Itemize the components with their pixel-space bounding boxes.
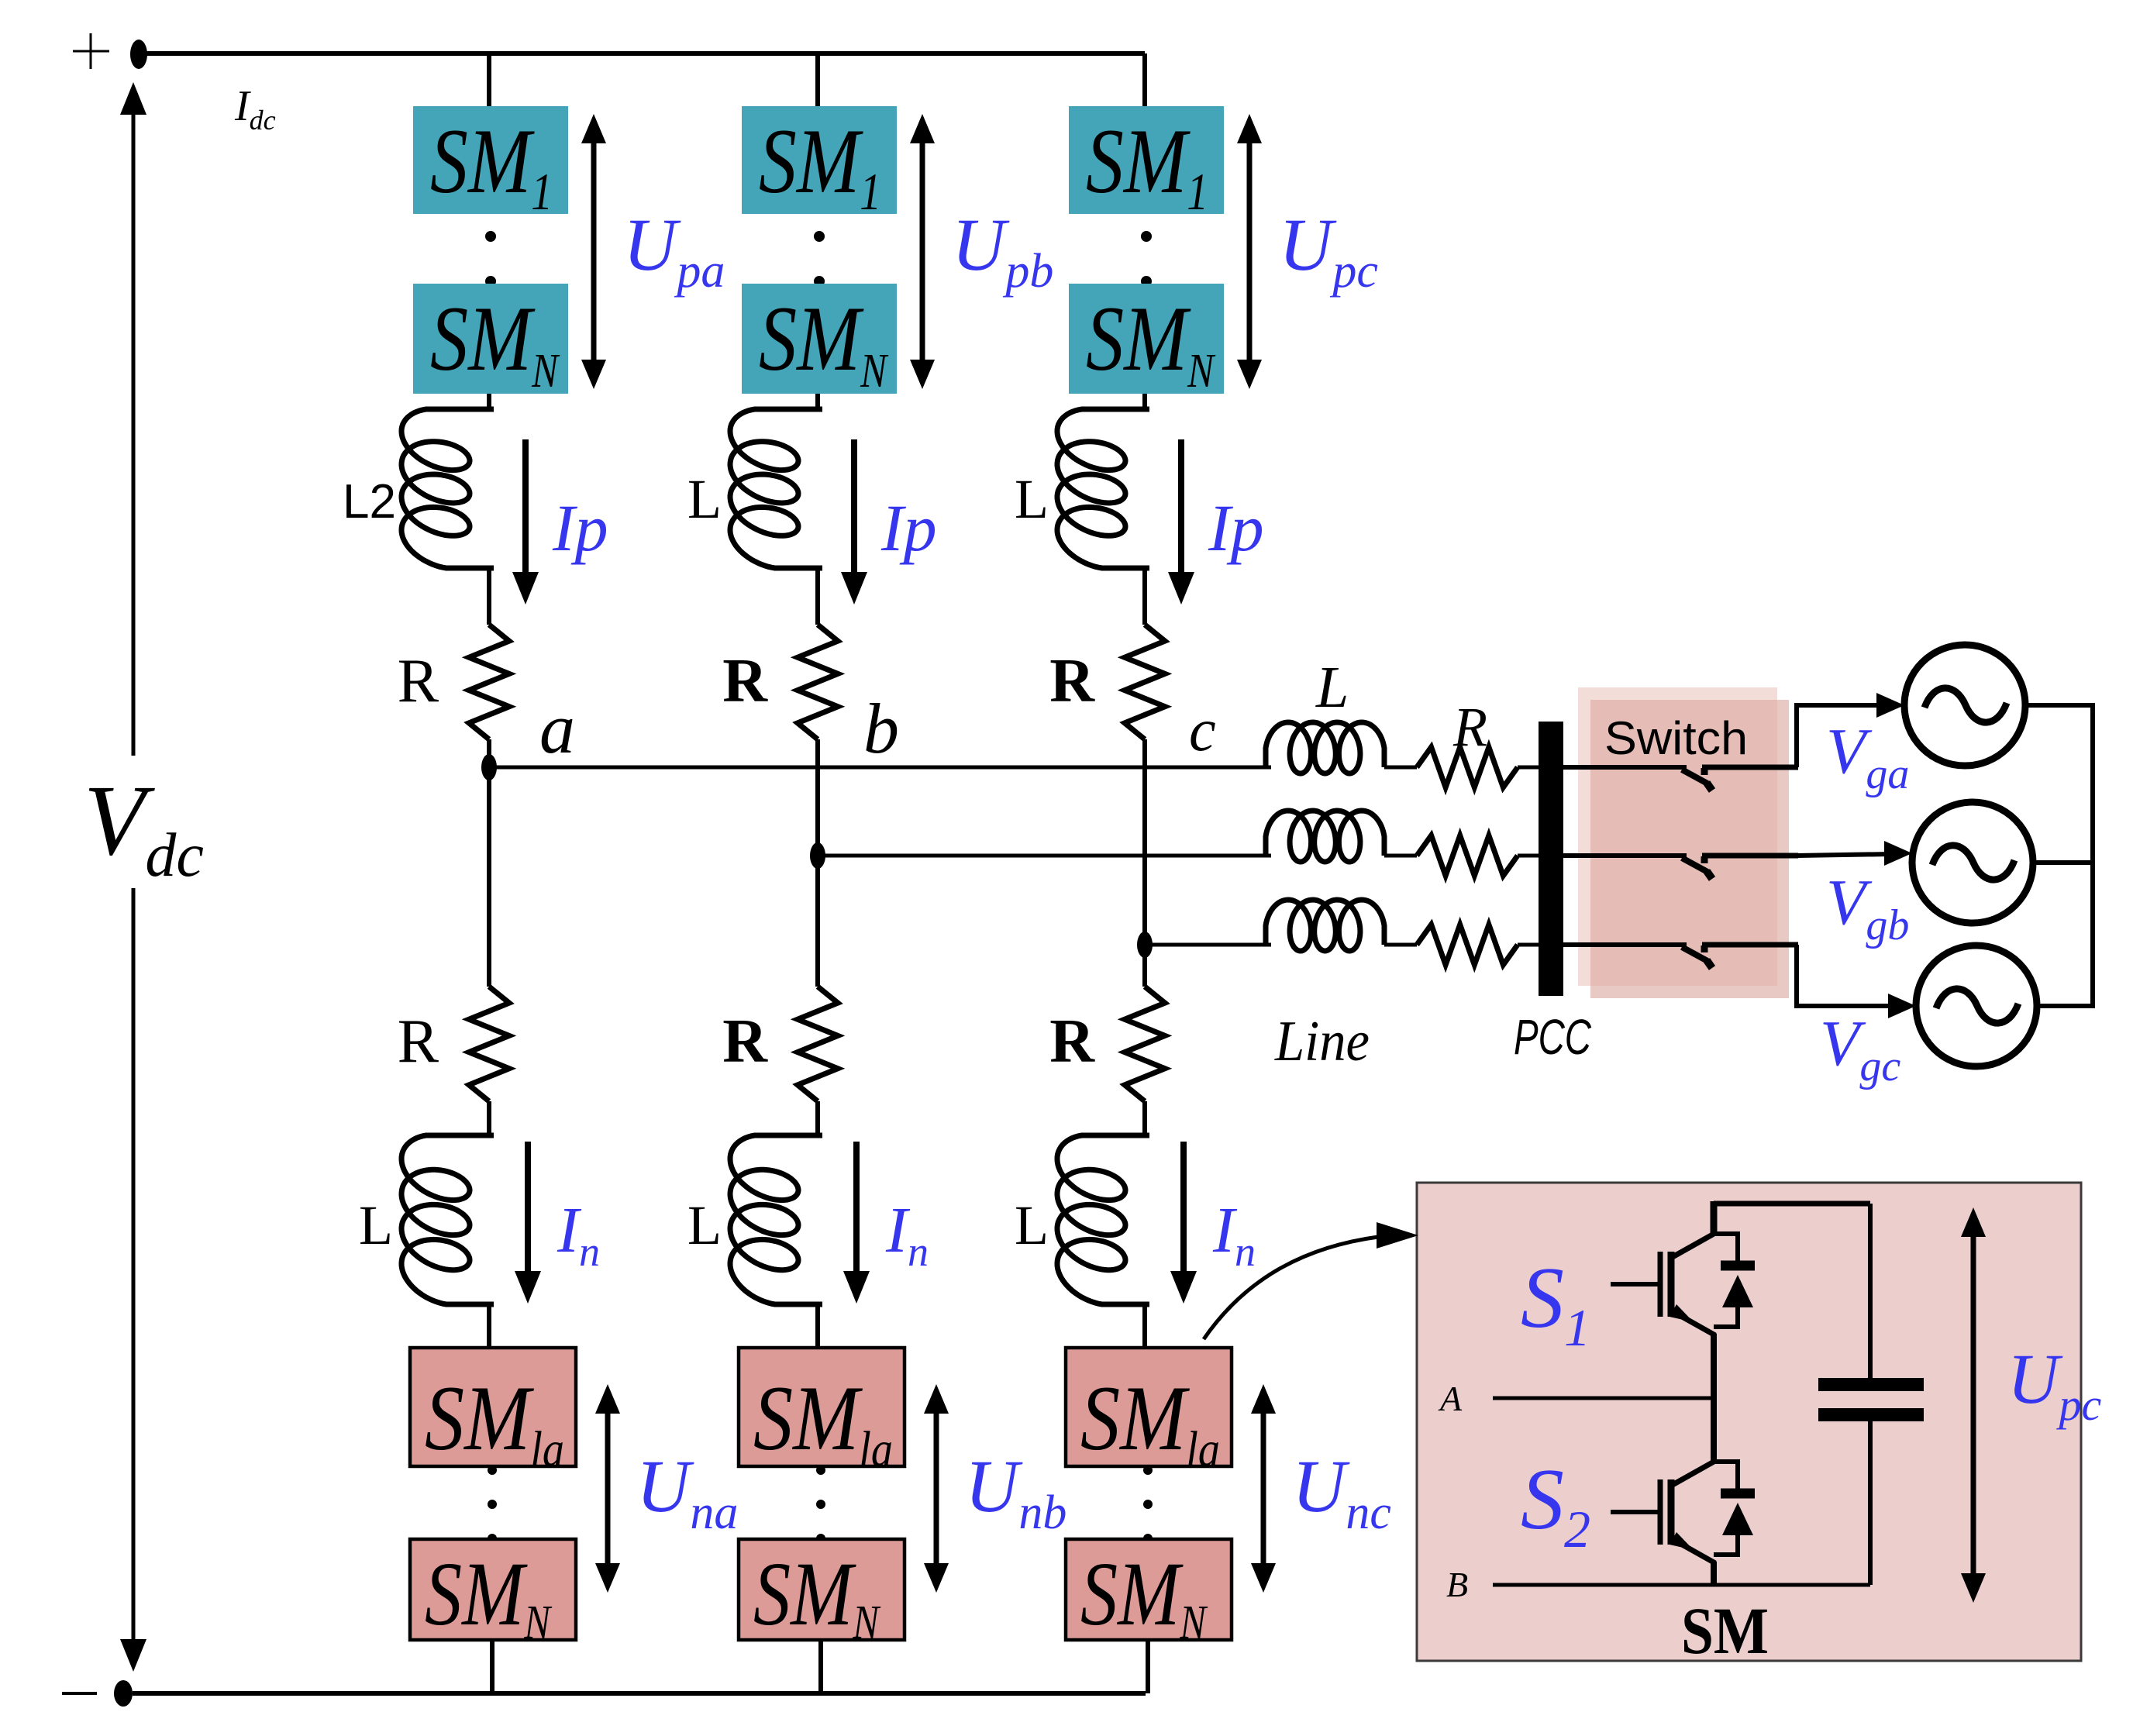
label Upc <box>2007 1339 2101 1430</box>
wire: phase b upper leg from DC bus <box>815 53 820 107</box>
svg-text:R: R <box>398 647 439 715</box>
submodule SMN box (upper arm, phase c) <box>1069 284 1224 398</box>
label S2 <box>1521 1452 1590 1559</box>
switch highlight box (dark overlay) <box>1590 700 1789 998</box>
svg-text:L: L <box>359 1194 393 1256</box>
AC source Vgb <box>1912 802 2033 923</box>
svg-text:R: R <box>398 1007 439 1076</box>
label Ip phase a <box>552 491 608 565</box>
transistor S1 (IGBT) <box>1611 1233 1755 1335</box>
line resistor R phase a <box>1417 747 1518 787</box>
wire: top DC bus <box>143 51 1145 56</box>
wire: phase c AC line to grid inductor <box>1145 943 1271 947</box>
wire: line inductor to resistor phase b <box>1384 854 1417 858</box>
resistor R (upper arm, phase a) <box>469 625 509 739</box>
wire: node c down to lower resistor <box>1142 945 1147 987</box>
svg-text:c: c <box>1189 696 1216 763</box>
current arrow Ip phase a <box>512 439 539 604</box>
wire: S1 emitter to A node <box>1711 1334 1717 1401</box>
svg-text:L: L <box>1015 1194 1049 1256</box>
AC source Vgc <box>1916 945 2037 1066</box>
svg-text:L: L <box>1015 468 1049 530</box>
svg-text:PCC: PCC <box>1514 1009 1592 1065</box>
label Ip phase c <box>1208 491 1264 565</box>
svg-text:Ip: Ip <box>552 491 608 565</box>
label: minus sign <box>62 1692 97 1695</box>
capacitor branch upper wire <box>1868 1204 1873 1378</box>
wire: resistor to PCC phase a <box>1518 766 1542 770</box>
inductor L (lower arm, phase c) <box>1057 1135 1149 1304</box>
wire: resistor to PCC phase c <box>1518 943 1542 947</box>
wire: SM stack to bottom bus phase b <box>818 1640 823 1693</box>
current arrow In phase c <box>1170 1142 1197 1304</box>
label Vgc <box>1820 1007 1900 1090</box>
label Unb <box>965 1445 1066 1539</box>
svg-text:Line: Line <box>1274 1010 1370 1073</box>
wire: node a down to lower resistor <box>487 767 491 987</box>
svg-text:R: R <box>1049 647 1095 715</box>
wire: resistor to node a <box>487 739 491 767</box>
inductor L (upper arm, phase b) <box>730 409 822 568</box>
inductor L (lower arm, phase b) <box>730 1135 822 1304</box>
arm voltage arrow Upb <box>910 114 935 389</box>
switch highlight box (light) <box>1578 687 1777 986</box>
current arrow In phase b <box>843 1142 870 1304</box>
dots between submodules upper arm phase c <box>1141 231 1152 287</box>
label Upa <box>623 203 725 298</box>
capacitor plates <box>1818 1378 1924 1421</box>
wire: phase c upper leg from DC bus <box>1142 53 1147 107</box>
svg-text:Ip: Ip <box>1208 491 1264 565</box>
submodule SMN box (upper arm, phase a) <box>413 284 568 398</box>
label R upper phase c <box>1049 647 1095 715</box>
label b <box>863 689 899 768</box>
inductor L (lower arm, phase a) <box>401 1135 494 1304</box>
wire: resistor to node c <box>1142 739 1147 945</box>
submodule SM1 box (upper arm, phase a) <box>413 106 568 221</box>
svg-text:L: L <box>1315 655 1349 720</box>
label Vgb <box>1826 866 1909 949</box>
Upc measurement arrow <box>1961 1207 1986 1603</box>
line inductor L phase b <box>1266 811 1384 862</box>
wire: SMN to arm inductor phase c <box>1142 394 1147 411</box>
resistor R (lower arm, phase a) <box>469 987 509 1101</box>
terminal B line <box>1493 1583 1870 1587</box>
label L lower phase b <box>687 1194 722 1256</box>
submodule SM1 box (upper arm, phase b) <box>742 106 897 221</box>
label L lower phase a <box>359 1194 393 1256</box>
label Upb <box>952 203 1053 298</box>
line inductor L phase a <box>1266 722 1384 773</box>
wire: SM top rail <box>1714 1201 1870 1234</box>
wire: SMN to arm inductor phase a <box>487 394 491 411</box>
svg-text:R: R <box>722 1007 768 1076</box>
svg-text:R: R <box>1049 1007 1095 1076</box>
wire: line inductor to resistor phase c <box>1384 943 1417 947</box>
wire: SM stack to bottom bus phase a <box>490 1640 494 1693</box>
line inductor L phase c <box>1266 900 1384 951</box>
wire: phase a upper leg from DC bus <box>487 53 491 107</box>
svg-text:L2: L2 <box>343 475 396 529</box>
label A <box>1438 1379 1463 1418</box>
svg-text:B: B <box>1446 1565 1468 1604</box>
wire: A node to S2 collector <box>1711 1398 1717 1462</box>
label R lower phase c <box>1049 1007 1095 1076</box>
label Idc <box>234 82 276 136</box>
label L (upper arm, phase b) <box>687 468 722 530</box>
dots between submodules upper arm phase a <box>485 231 496 287</box>
wire: bottom DC bus <box>133 1691 1146 1696</box>
wire: coil to resistor upper phase b <box>815 568 820 625</box>
Vdc measurement arrow (double headed) <box>120 82 146 1672</box>
resistor R (lower arm, phase b) <box>798 987 838 1101</box>
label In phase b <box>885 1194 929 1275</box>
svg-text:L: L <box>687 468 722 530</box>
PCC busbar <box>1539 722 1563 996</box>
label Line <box>1274 1010 1370 1073</box>
wire: switch c to source Vgc <box>1797 945 1916 1018</box>
wire: grid right bus <box>2025 705 2093 1006</box>
svg-text:Switch: Switch <box>1604 712 1748 764</box>
wire: phase b AC line to grid inductor <box>818 854 1271 858</box>
node b junction dot <box>810 842 825 869</box>
submodule SMN box (upper arm, phase b) <box>742 284 897 398</box>
submodule SM1 box (upper arm, phase c) <box>1069 106 1224 221</box>
label a <box>539 689 575 768</box>
submodule SM1a box (lower arm, phase a) <box>410 1348 576 1478</box>
svg-text:R: R <box>722 647 768 715</box>
wire: SM stack to bottom bus phase c <box>1146 1640 1150 1693</box>
resistor R (upper arm, phase b) <box>798 625 838 739</box>
wire: switch b to source Vgb <box>1797 841 1912 866</box>
resistor R (lower arm, phase c) <box>1125 987 1165 1101</box>
label Unc <box>1292 1445 1391 1539</box>
svg-text:b: b <box>863 689 899 768</box>
wire: SMN to arm inductor phase b <box>815 394 820 411</box>
wire: inductor to SM stack lower phase c <box>1142 1304 1147 1348</box>
switch phase b <box>1563 856 1798 879</box>
wire: lower resistor to inductor phase b <box>815 1101 820 1135</box>
svg-text:R: R <box>1452 696 1487 758</box>
wire: coil to resistor upper phase c <box>1142 568 1147 625</box>
label Una <box>636 1445 738 1539</box>
label R upper phase a <box>398 647 439 715</box>
label B <box>1446 1565 1468 1604</box>
switch phase c <box>1563 945 1798 968</box>
label: plus sign <box>73 33 109 69</box>
label SM (detail box) <box>1681 1593 1769 1668</box>
svg-text:SM: SM <box>1681 1593 1769 1668</box>
arm voltage arrow Upc <box>1237 114 1262 389</box>
switch phase a <box>1563 767 1798 790</box>
label L (upper arm, phase c) <box>1015 468 1049 530</box>
label L lower phase c <box>1015 1194 1049 1256</box>
label Upc <box>1279 203 1378 298</box>
label Switch <box>1604 712 1748 764</box>
label Vga <box>1826 715 1909 798</box>
wire: line inductor to resistor phase a <box>1384 766 1417 770</box>
svg-text:A: A <box>1438 1379 1463 1418</box>
line resistor R phase b <box>1417 835 1518 876</box>
label Ip phase b <box>880 491 937 565</box>
wire: resistor to PCC phase b <box>1518 854 1542 858</box>
dots between submodules lower arm phase c <box>1143 1466 1153 1543</box>
label R upper phase b <box>722 647 768 715</box>
label In phase a <box>557 1194 600 1275</box>
node a junction dot <box>481 754 497 780</box>
label L2 <box>343 475 396 529</box>
label PCC <box>1514 1009 1592 1065</box>
svg-text:a: a <box>539 689 575 768</box>
wire: switch a to source Vga <box>1797 693 1904 767</box>
inductor L (upper arm, phase c) <box>1057 409 1149 568</box>
wire: lower resistor to inductor phase c <box>1142 1101 1147 1135</box>
label R line resistor <box>1452 696 1487 758</box>
node c junction dot <box>1137 932 1153 958</box>
arm voltage arrow Una <box>595 1384 620 1593</box>
terminal A line <box>1493 1397 1714 1400</box>
submodule SM1a box (lower arm, phase c) <box>1066 1348 1232 1478</box>
submodule SMN box (lower arm, phase a) <box>410 1539 576 1649</box>
line resistor R phase c <box>1417 925 1518 965</box>
svg-text:L: L <box>687 1194 722 1256</box>
submodule SMN box (lower arm, phase b) <box>739 1539 905 1649</box>
SM detail box <box>1417 1183 2081 1661</box>
arm voltage arrow Unc <box>1251 1384 1276 1593</box>
submodule SM1a box (lower arm, phase b) <box>739 1348 905 1478</box>
arrow from SM1a to SM detail <box>1204 1222 1418 1339</box>
label R lower phase b <box>722 1007 768 1076</box>
transistor S2 (IGBT) <box>1611 1461 1755 1563</box>
wire: resistor to node b <box>815 739 820 856</box>
wire: inductor to SM stack lower phase a <box>487 1304 491 1348</box>
label R lower phase a <box>398 1007 439 1076</box>
wire: lower resistor to inductor phase a <box>487 1101 491 1135</box>
current arrow Ip phase c <box>1168 439 1194 604</box>
label In phase c <box>1212 1194 1256 1275</box>
wire: phase a AC line to grid inductor <box>489 766 1271 770</box>
label L line inductor <box>1315 655 1349 720</box>
wire: inductor to SM stack lower phase b <box>815 1304 820 1348</box>
label Vdc <box>84 765 204 890</box>
wire: S2 emitter to B line <box>1711 1562 1717 1585</box>
submodule SMN box (lower arm, phase c) <box>1066 1539 1232 1649</box>
current arrow Ip phase b <box>841 439 867 604</box>
dots between submodules upper arm phase b <box>814 231 825 287</box>
label S1 <box>1521 1250 1590 1357</box>
dots between submodules lower arm phase a <box>488 1466 497 1543</box>
wire: node b down to lower resistor <box>815 856 820 987</box>
svg-text:Ip: Ip <box>880 491 937 565</box>
arm voltage arrow Upa <box>581 114 606 389</box>
resistor R (upper arm, phase c) <box>1125 625 1165 739</box>
dots between submodules lower arm phase b <box>816 1466 825 1543</box>
current arrow In phase a <box>515 1142 541 1304</box>
label c <box>1189 696 1216 763</box>
arm voltage arrow Unb <box>924 1384 949 1593</box>
node: negative DC terminal dot <box>114 1680 133 1707</box>
capacitor branch lower wire <box>1868 1421 1873 1585</box>
node: positive DC terminal dot <box>130 40 147 69</box>
wire: coil to resistor upper phase a <box>487 568 491 625</box>
inductor L2 (upper arm, phase a) <box>401 409 494 568</box>
AC source Vga <box>1904 645 2025 766</box>
